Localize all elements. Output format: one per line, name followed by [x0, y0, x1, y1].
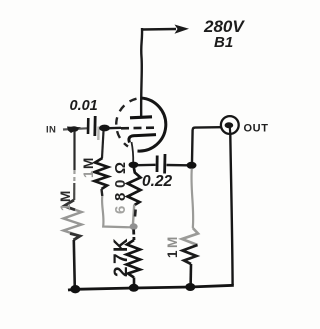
- svg-text:1: 1: [165, 250, 180, 258]
- tube cathode: [129, 135, 156, 143]
- tube grid dashed: [121, 126, 156, 129]
- node ground right: [185, 283, 195, 291]
- arrowhead to B1 supply: [175, 25, 190, 34]
- wire cathode node to C2: [138, 164, 156, 167]
- tube V1 envelope solid right arc: [138, 98, 166, 151]
- terminal OUT circle: [221, 116, 239, 134]
- capacitor C2 0.22 left plate: [156, 156, 159, 173]
- wire plate lead vertical: [140, 28, 143, 117]
- resistor R5 1M output zigzag: [182, 228, 198, 245]
- node ground middle: [129, 284, 139, 292]
- wire R1 bottom lead: [74, 240, 75, 288]
- svg-text:M: M: [165, 237, 180, 248]
- tube plate bar: [130, 117, 152, 118]
- resistor R2 1M grid zigzag: [95, 158, 109, 189]
- wire OUT down right side: [230, 135, 232, 286]
- label 1M (grid leak): [81, 158, 96, 178]
- label 1M (output resistor): [165, 237, 180, 258]
- node bias junction (gray): [130, 223, 138, 230]
- node output junction: [187, 162, 197, 169]
- svg-text:M: M: [81, 158, 96, 169]
- svg-text:K: K: [111, 238, 132, 252]
- svg-text:8: 8: [112, 193, 129, 201]
- svg-text:M: M: [58, 191, 73, 202]
- capacitor C1 0.01 left plate: [87, 118, 90, 134]
- tube V1 envelope dashed left arc: [116, 99, 136, 147]
- wire R3 gray lead to node: [133, 205, 134, 225]
- svg-text:7: 7: [111, 253, 132, 264]
- svg-text:B1: B1: [214, 34, 233, 51]
- wire cathode lead: [132, 142, 134, 163]
- wire R4 bottom lead: [133, 278, 136, 289]
- wire output node up and to OUT terminal: [192, 127, 221, 162]
- resistor R5 1M output gray lead: [191, 169, 193, 229]
- terminal OUT center dot: [225, 122, 234, 128]
- wire OUT dot stem: [229, 127, 232, 135]
- svg-text:OUT: OUT: [244, 123, 269, 135]
- svg-text:1: 1: [58, 203, 73, 211]
- resistor R4 27K top lead: [132, 230, 135, 241]
- svg-text:IN: IN: [46, 125, 56, 136]
- svg-text:0: 0: [112, 180, 129, 188]
- wire input: [63, 128, 87, 129]
- svg-text:2: 2: [111, 266, 132, 277]
- label 1M (input resistor): [58, 191, 73, 211]
- node ground left: [70, 285, 80, 293]
- wire B+ top horizontal: [142, 28, 176, 31]
- capacitor C1 0.01 right plate: [93, 116, 96, 136]
- node input junction: [67, 127, 81, 134]
- wire R5 bottom lead: [189, 264, 192, 287]
- node grid junction: [99, 125, 110, 132]
- svg-text:1: 1: [81, 170, 96, 178]
- label 680 ohm: [112, 162, 129, 214]
- node cathode junction: [129, 162, 139, 168]
- wire grid: [109, 127, 121, 130]
- resistor R3 680 ohm zigzag: [128, 168, 141, 206]
- capacitor C2 0.22 right plate: [163, 154, 166, 174]
- wire ground bus bottom: [68, 285, 234, 290]
- wire C2 to output node: [167, 164, 188, 167]
- resistor R1 1M input zigzag: [64, 200, 82, 240]
- label 27K: [111, 238, 132, 277]
- capacitor ghost plate gray: [97, 127, 100, 141]
- wire R2 bottom gray wire to node: [100, 189, 103, 196]
- svg-text:Ω: Ω: [112, 162, 129, 174]
- resistor R1 1M input (gray) vertical lead: [73, 131, 75, 170]
- resistor R2 1M grid leak lead: [102, 131, 104, 158]
- svg-text:6: 6: [112, 206, 129, 214]
- svg-text:0.22: 0.22: [142, 173, 173, 190]
- resistor R4 27K zigzag: [127, 240, 141, 278]
- svg-text:0.01: 0.01: [70, 98, 98, 114]
